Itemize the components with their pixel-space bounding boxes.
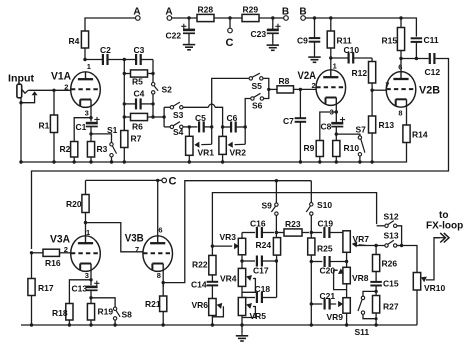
potentiometer VR5 — [238, 298, 245, 316]
svg-text:R12: R12 — [352, 68, 368, 78]
node VR8 top — [345, 260, 348, 263]
svg-text:S12: S12 — [384, 212, 399, 222]
resistor R17 — [31, 253, 33, 279]
C21 to VR9 wiper arrow — [330, 303, 337, 305]
capacitor C1 (polarized) — [86, 122, 98, 125]
resistor R18 — [66, 304, 73, 321]
svg-text:R15: R15 — [382, 36, 398, 46]
wire cathode to R18 — [69, 280, 91, 304]
wire R11 to plate — [330, 48, 332, 70]
node C7 top — [299, 88, 302, 91]
cathode node — [89, 116, 92, 119]
wire C8 bottom to S7 — [336, 134, 360, 136]
resistor R22 — [211, 252, 213, 256]
capacitor C14 — [207, 281, 219, 283]
wire R6 right to S3/S4 — [153, 116, 164, 118]
wire A corner down to S10 — [310, 181, 312, 203]
svg-text:A: A — [133, 7, 140, 18]
svg-text:V1A: V1A — [51, 71, 71, 83]
switch S4 — [164, 126, 170, 128]
svg-text:S5: S5 — [252, 81, 263, 91]
svg-text:3: 3 — [85, 271, 89, 280]
node C6 right — [244, 125, 247, 128]
svg-text:R25: R25 — [317, 244, 333, 254]
node C15 bottom — [374, 290, 377, 293]
jack shorting contact arrow — [32, 91, 38, 95]
switch S13 — [385, 244, 388, 247]
wire S3 out with hop over C5 vertical — [183, 106, 209, 108]
ground bus junction dots — [19, 160, 22, 163]
wire C13 bottom to S8 — [91, 298, 115, 307]
svg-text:R14: R14 — [412, 130, 428, 140]
svg-text:C6: C6 — [227, 113, 238, 123]
FX-loop arrow — [434, 237, 445, 239]
jack sleeve junction — [19, 101, 22, 104]
node tone2 — [310, 231, 313, 234]
svg-text:C: C — [169, 176, 177, 188]
wire cathode to R9 — [320, 112, 337, 141]
svg-text:VR3: VR3 — [220, 232, 237, 242]
node C20 left — [310, 260, 313, 263]
node V3A plate — [84, 221, 87, 224]
svg-text:R8: R8 — [279, 76, 290, 86]
tone row wire — [242, 232, 255, 234]
svg-text:to: to — [439, 210, 448, 221]
wire plate row to C12 — [401, 58, 429, 60]
resistor R8 — [277, 86, 294, 93]
resistor R28 — [197, 14, 214, 21]
resistor R23 — [276, 232, 284, 234]
capacitor C7 — [299, 89, 301, 118]
wire C2 to node — [108, 59, 125, 61]
node R16 left — [30, 251, 33, 254]
capacitor C9 with ground — [314, 18, 316, 38]
svg-text:VR6: VR6 — [192, 300, 209, 310]
resistor R15 — [400, 18, 402, 28]
svg-text:C18: C18 — [255, 284, 271, 294]
svg-text:C17: C17 — [253, 266, 269, 276]
switch S10 — [310, 203, 313, 206]
wire C5 node up to S5 — [212, 78, 249, 127]
wire C12 to right side down to V3A grid line — [32, 59, 449, 250]
potentiometer VR7 — [346, 231, 348, 233]
svg-text:R16: R16 — [45, 258, 61, 268]
node C6 left — [221, 125, 224, 128]
svg-text:C: C — [226, 37, 234, 49]
svg-text:Input: Input — [8, 73, 35, 85]
switch S12 — [385, 224, 388, 227]
svg-text:2: 2 — [312, 81, 316, 90]
VR3 wiper from R22 column — [211, 244, 214, 247]
wire V1A plate node — [83, 58, 86, 61]
svg-text:7: 7 — [385, 81, 389, 90]
wire S12/S13 right to VR10 — [397, 226, 402, 246]
resistor R5 — [124, 73, 130, 75]
node V3B plate drop — [156, 179, 159, 182]
wire C15 bottom to S11 — [363, 291, 376, 296]
resistor R25 — [310, 233, 312, 239]
svg-text:C9: C9 — [297, 36, 308, 46]
switch S11 — [361, 296, 364, 299]
node VR1 top — [188, 125, 191, 128]
svg-text:S2: S2 — [162, 85, 173, 95]
capacitor C3 — [124, 59, 136, 61]
wire V2B cathode to R14 — [406, 107, 408, 125]
node C21 left — [310, 302, 313, 305]
wire B from R22 column to S12 — [212, 193, 376, 252]
ground symbol bottom — [241, 325, 243, 333]
svg-text:S8: S8 — [122, 310, 133, 320]
node R5 left — [123, 72, 126, 75]
potentiometer VR9 — [343, 298, 350, 314]
svg-text:B: B — [282, 7, 289, 18]
svg-text:S9: S9 — [262, 201, 273, 211]
svg-text:R4: R4 — [69, 36, 80, 46]
svg-text:3: 3 — [85, 109, 89, 118]
wire C1 bottom to S1 — [91, 134, 112, 143]
svg-text:1: 1 — [87, 62, 91, 71]
terminal B (left) — [284, 16, 289, 21]
svg-text:C1: C1 — [76, 122, 87, 132]
capacitor C15 — [375, 272, 377, 282]
VR2 wiper from C6 node — [244, 127, 246, 144]
svg-text:S10: S10 — [317, 200, 332, 210]
capacitor C11 — [411, 37, 423, 39]
resistor R14 — [403, 125, 410, 143]
VR5 wiper loop — [252, 306, 254, 308]
resistor R2 — [71, 142, 78, 158]
svg-text:R28: R28 — [198, 5, 214, 15]
svg-text:S4: S4 — [173, 127, 184, 137]
wire V3A plate to V3B grid — [86, 223, 144, 252]
capacitor C8 (polarized) — [331, 122, 343, 125]
svg-text:R13: R13 — [379, 120, 395, 130]
capacitor C20 — [311, 261, 322, 263]
svg-text:R10: R10 — [344, 143, 360, 153]
svg-text:R18: R18 — [52, 308, 68, 318]
svg-text:R29: R29 — [243, 5, 259, 15]
svg-text:C14: C14 — [191, 280, 207, 290]
svg-text:C2: C2 — [100, 45, 111, 55]
node S13/R26 — [374, 244, 377, 247]
resistor R1 — [53, 90, 55, 115]
svg-text:VR9: VR9 — [327, 312, 344, 322]
capacitor C18 — [242, 297, 255, 299]
capacitor C12 — [429, 53, 431, 64]
svg-text:A: A — [165, 7, 172, 18]
potentiometer VR8 — [343, 267, 350, 284]
potentiometer VR1 — [188, 127, 190, 136]
svg-text:VR5: VR5 — [250, 311, 267, 321]
node C5 right — [210, 125, 213, 128]
node tone1 — [275, 231, 278, 234]
svg-text:R19: R19 — [98, 307, 114, 317]
resistor R27 — [373, 296, 380, 314]
node C9 junction — [313, 16, 316, 19]
potentiometer VR4 — [241, 267, 243, 269]
node C1 bottom — [89, 132, 92, 135]
resistor R26 — [375, 246, 377, 255]
VR1 wiper from C5 node — [211, 127, 213, 144]
svg-text:S3: S3 — [173, 110, 184, 120]
wire V3A cathode node — [90, 272, 92, 286]
wire V2A cathode node — [335, 106, 337, 124]
capacitor C22 (polarized) with ground — [188, 18, 190, 30]
VR4 wiper loop — [252, 278, 254, 280]
svg-text:C22: C22 — [166, 31, 182, 41]
svg-text:C4: C4 — [134, 89, 145, 99]
wire R15 to plate — [400, 51, 402, 72]
svg-text:S7: S7 — [356, 125, 367, 135]
wire C terminal to R20 — [86, 179, 163, 181]
svg-text:R1: R1 — [39, 121, 50, 131]
terminal C (mid) — [162, 178, 167, 183]
node R11 junction — [329, 16, 332, 19]
svg-text:C13: C13 — [72, 284, 88, 294]
resistor R7 — [123, 117, 125, 131]
svg-text:R21: R21 — [145, 299, 161, 309]
svg-text:S1: S1 — [107, 125, 118, 135]
svg-text:C12: C12 — [425, 67, 441, 77]
switch S6 — [251, 97, 254, 100]
wire R4 top to terminal A — [85, 18, 135, 60]
svg-text:R3: R3 — [97, 144, 108, 154]
resistor R20 — [85, 180, 87, 194]
node R5 right — [151, 72, 154, 75]
node C4 right — [151, 102, 154, 105]
svg-text:C19: C19 — [318, 219, 334, 229]
wire S5/S6 to R8 — [263, 78, 269, 98]
svg-text:2: 2 — [64, 83, 68, 92]
wire V3B cathode to node — [162, 272, 164, 288]
svg-text:C10: C10 — [344, 45, 360, 55]
svg-text:C21: C21 — [320, 291, 336, 301]
svg-text:VR8: VR8 — [352, 273, 369, 283]
svg-text:R27: R27 — [383, 302, 399, 312]
node VR3 bottom — [240, 259, 243, 262]
potentiometer VR6 — [209, 299, 216, 316]
node C22 junction — [187, 16, 190, 19]
wire input tip to V1A grid — [28, 89, 71, 91]
svg-text:1: 1 — [86, 228, 90, 237]
terminal B (right) — [301, 16, 306, 21]
node C13 bottom — [89, 296, 92, 299]
svg-text:8: 8 — [157, 271, 161, 280]
node C23 junction — [271, 16, 274, 19]
svg-text:S13: S13 — [384, 231, 399, 241]
svg-text:R11: R11 — [337, 36, 352, 46]
resistor R3 — [87, 142, 94, 158]
svg-text:C5: C5 — [195, 113, 206, 123]
node C4 left — [123, 102, 126, 105]
resistor R19 — [87, 304, 94, 321]
node R6 left — [123, 115, 126, 118]
wire S11 bottom rejoining R27 column — [363, 314, 376, 318]
svg-text:VR4: VR4 — [220, 274, 237, 284]
svg-text:R20: R20 — [66, 199, 82, 209]
wire plate to C2 — [85, 59, 103, 61]
svg-text:R23: R23 — [285, 219, 301, 229]
potentiometer VR3 — [241, 233, 243, 239]
svg-text:R9: R9 — [304, 143, 315, 153]
node C8 bottom — [335, 132, 338, 135]
svg-text:V3A: V3A — [50, 234, 70, 246]
node C2/C3 — [123, 58, 126, 61]
node S9 top — [275, 179, 278, 182]
bus junction dots — [30, 323, 33, 326]
wire S13 left to VR7 wiper — [356, 245, 385, 247]
svg-text:C16: C16 — [250, 219, 266, 229]
capacitor C17 — [242, 260, 255, 262]
switch S2 — [152, 83, 155, 86]
potentiometer VR2 — [222, 127, 224, 136]
svg-text:R17: R17 — [38, 283, 54, 293]
svg-text:R26: R26 — [382, 259, 398, 269]
node R6 right — [151, 115, 154, 118]
svg-text:R5: R5 — [132, 77, 143, 87]
switch S8 — [113, 307, 116, 310]
svg-text:R24: R24 — [256, 240, 272, 250]
capacitor C23 (polarized) with ground — [272, 18, 274, 30]
wire R14 to ground bus — [21, 143, 407, 163]
svg-text:C3: C3 — [134, 45, 145, 55]
terminal C (top) — [229, 18, 231, 28]
plate node — [399, 57, 402, 60]
resistor R4 — [81, 31, 88, 48]
resistor R10 — [333, 141, 340, 157]
plate node — [329, 56, 332, 59]
capacitor C5 — [198, 121, 200, 132]
wire right vertical C3 to S2 — [152, 60, 154, 83]
svg-text:B: B — [299, 7, 306, 18]
svg-text:S6: S6 — [252, 101, 263, 111]
svg-text:V2B: V2B — [419, 85, 440, 97]
svg-text:C11: C11 — [424, 35, 439, 45]
resistor R24 — [275, 233, 277, 238]
node S3/S4 feed — [162, 115, 165, 118]
svg-text:V3B: V3B — [125, 233, 144, 245]
VR7 wiper arrow — [359, 244, 366, 247]
node R1 top — [52, 89, 55, 92]
svg-text:6: 6 — [398, 63, 402, 72]
capacitor C13 (polarized) — [86, 286, 98, 289]
resistor R11 — [330, 18, 332, 31]
svg-text:FX-loop: FX-loop — [426, 221, 463, 232]
switch S9 — [275, 203, 278, 206]
resistor R6 — [124, 116, 130, 118]
terminal A (right) — [167, 16, 172, 21]
wire S12 left jog — [377, 225, 385, 227]
potentiometer VR10 — [413, 273, 420, 291]
VR8 wiper loop — [336, 269, 338, 271]
capacitor C21 — [311, 303, 322, 305]
svg-text:R6: R6 — [132, 122, 143, 132]
input jack — [17, 84, 22, 98]
VR10 wiper to FX loop — [426, 279, 429, 281]
switch S9 drop crossing send wire — [275, 181, 277, 203]
svg-text:7: 7 — [135, 245, 139, 254]
svg-text:C15: C15 — [383, 279, 399, 289]
svg-text:C7: C7 — [283, 116, 294, 126]
svg-text:C23: C23 — [251, 29, 267, 39]
wire cathode to tone stack feed (wire A) — [163, 181, 311, 283]
wire left vertical C2 node down — [123, 60, 125, 131]
capacitor C19 — [311, 232, 322, 234]
wire A rail: A to B — [172, 17, 284, 19]
wire S4 out to C5/VR1 — [183, 126, 197, 128]
wire B rail — [305, 18, 416, 37]
capacitor C2 — [102, 54, 104, 65]
svg-text:8: 8 — [398, 109, 402, 118]
svg-text:C8: C8 — [321, 122, 332, 132]
switch S7 — [358, 136, 361, 139]
bottom ground bus — [21, 324, 417, 326]
wire C6 right up to S6 — [245, 99, 251, 128]
svg-text:R2: R2 — [60, 144, 71, 154]
svg-text:S11: S11 — [355, 327, 370, 337]
node V2B grid — [370, 89, 373, 92]
svg-text:1: 1 — [333, 62, 337, 71]
svg-text:R7: R7 — [131, 134, 142, 144]
wire to V2B grid — [372, 89, 387, 91]
resistor R13 — [369, 116, 376, 133]
svg-text:R22: R22 — [192, 260, 208, 270]
node R15 junction — [399, 16, 402, 19]
switch S3 — [164, 106, 170, 108]
resistor R16 — [32, 252, 44, 254]
VR6 wiper loop — [222, 305, 224, 307]
svg-text:VR7: VR7 — [353, 234, 370, 244]
resistor R9 — [316, 141, 323, 157]
svg-text:VR10: VR10 — [424, 283, 446, 293]
wire cathode node to R2 — [74, 118, 91, 142]
resistor R29 — [242, 14, 259, 21]
switch S5 — [249, 77, 252, 80]
resistor R21 — [162, 283, 164, 296]
switch S1 — [110, 143, 113, 146]
capacitor C6 — [223, 126, 231, 128]
resistor R12 — [371, 58, 373, 62]
svg-text:VR1: VR1 — [198, 148, 215, 158]
wire C node down to V3B plate — [157, 180, 159, 235]
capacitor C4 — [124, 103, 136, 105]
svg-text:VR2: VR2 — [230, 148, 247, 158]
wire V1A cathode to node — [90, 108, 92, 122]
capacitor C10 — [331, 57, 349, 59]
svg-text:6: 6 — [158, 226, 162, 235]
capacitor C16 — [256, 227, 258, 238]
terminal A (left) — [136, 16, 141, 21]
node C17 right — [275, 259, 278, 262]
wire jack sleeve down left side to ground bus — [20, 98, 22, 162]
node C junction — [228, 16, 231, 19]
node C11 bottom — [415, 57, 418, 60]
